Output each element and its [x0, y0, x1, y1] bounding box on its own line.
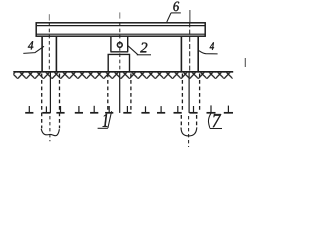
column 4 left, right edge — [55, 37, 57, 72]
pile axis dashed below marks, right — [188, 116, 190, 147]
label 1 — [103, 114, 108, 127]
pile axis solid below ground, left — [49, 72, 51, 113]
centerline left — [48, 14, 50, 20]
pile axis solid below ground, middle — [119, 72, 121, 113]
column 4 right, left edge — [180, 37, 182, 72]
permafrost level marks row — [25, 105, 233, 112]
label 2 — [140, 43, 147, 53]
ground hatching — [13, 72, 232, 79]
slab inner bottom line — [36, 33, 205, 35]
block 2 side edges and bottom — [110, 37, 128, 52]
ground line — [13, 71, 233, 73]
pedestal under block 2 — [108, 54, 129, 71]
break curve bottom of right pile — [181, 127, 197, 136]
label 4 left — [28, 41, 33, 49]
centerline right — [189, 10, 191, 23]
middle pile outline dashed — [107, 74, 109, 112]
right pile outline dashed lower — [180, 115, 182, 128]
column 4 right, right edge — [197, 37, 199, 72]
label 7 — [213, 114, 221, 127]
hole circle in block 2 — [117, 43, 122, 48]
slab inner top line — [36, 25, 205, 27]
left pile outline dashed — [41, 74, 43, 129]
scan artifact right edge — [244, 58, 246, 67]
pile axis dashed below marks, left — [49, 116, 51, 141]
break curve bottom of left pile — [41, 129, 59, 136]
slab 6 outer rectangle — [36, 23, 205, 36]
column 4 left, left edge — [41, 37, 43, 72]
label 4 right — [210, 42, 214, 49]
right pile outline dashed upper — [181, 74, 183, 113]
label 6 — [173, 2, 179, 12]
centerline middle — [119, 12, 121, 18]
pile axis solid below ground, right — [188, 72, 190, 113]
